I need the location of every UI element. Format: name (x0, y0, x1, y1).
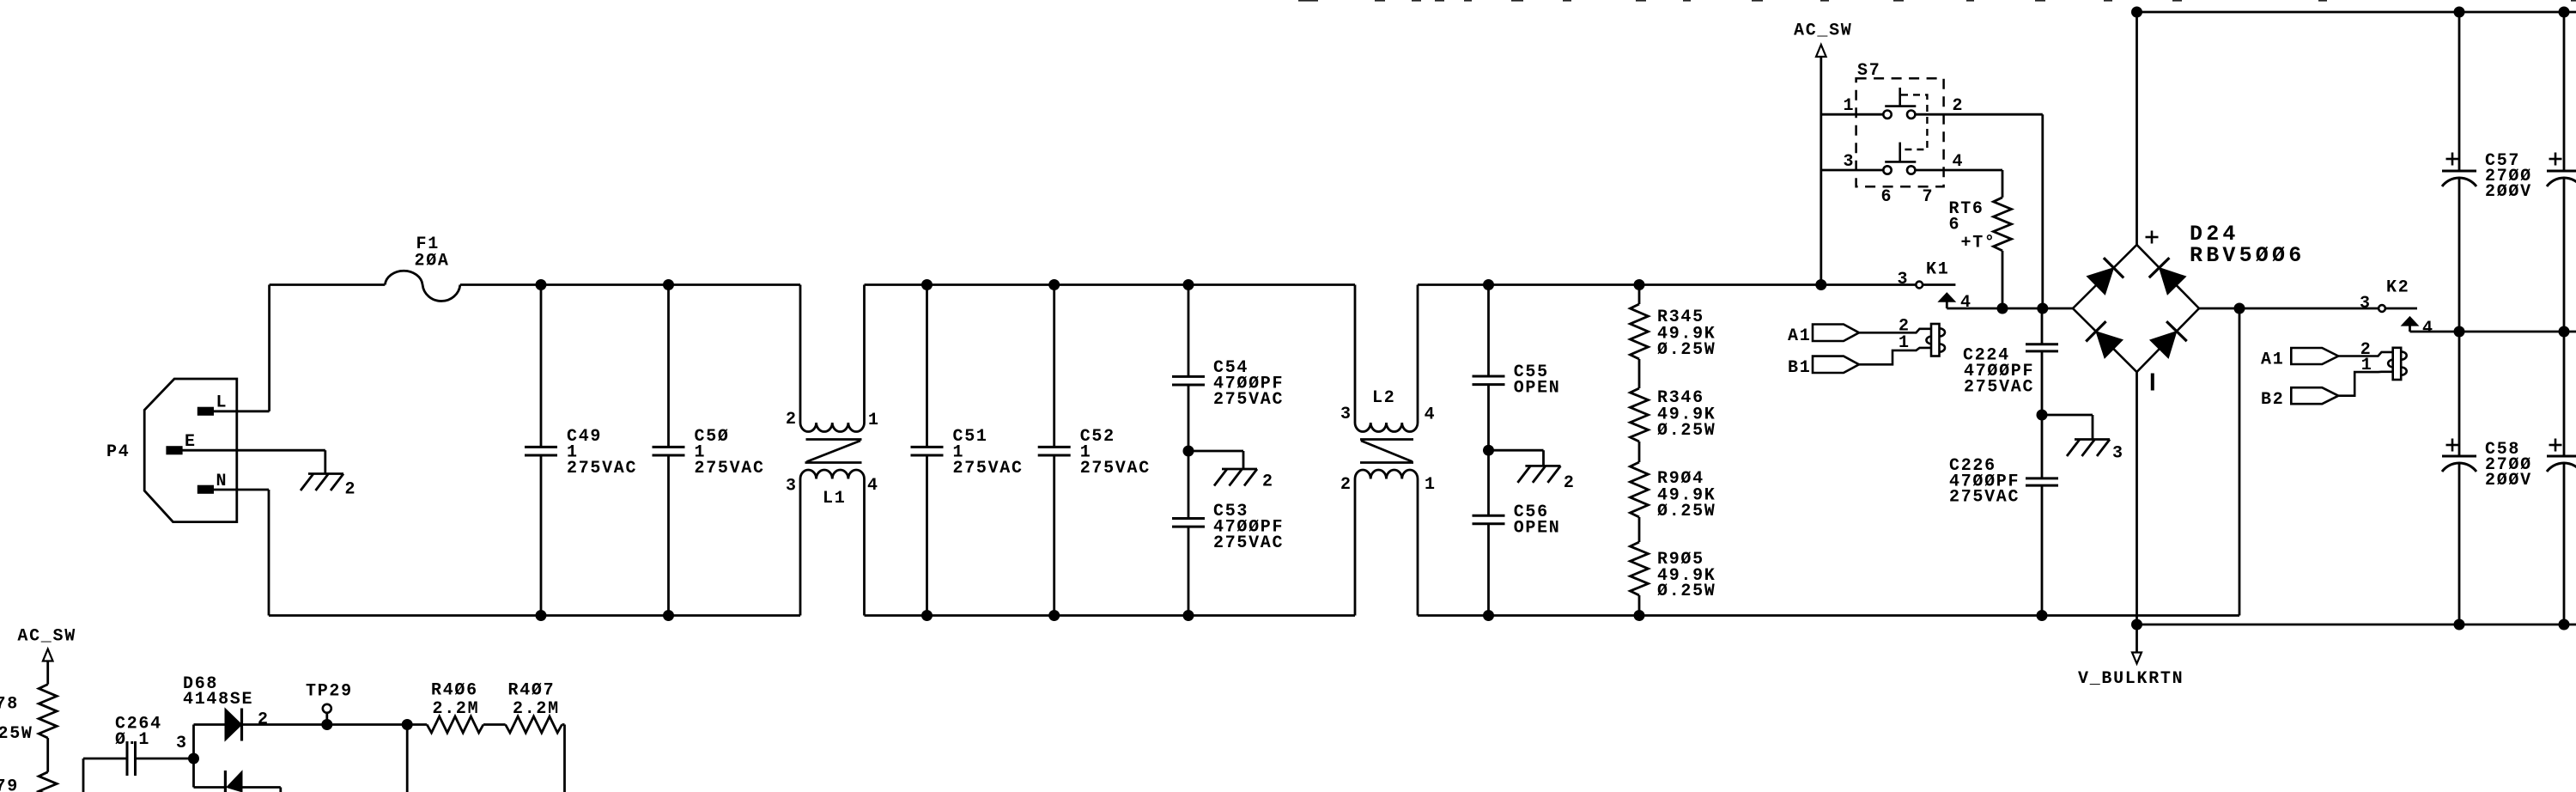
svg-text:2ØØV: 2ØØV (2485, 182, 2532, 202)
svg-text:V_BULKRTN: V_BULKRTN (2078, 669, 2184, 689)
capacitor C224 (2041, 308, 2044, 344)
svg-text:Ø.25W: Ø.25W (1657, 582, 1716, 601)
svg-text:RBV5ØØ6: RBV5ØØ6 (2190, 243, 2305, 268)
svg-text:3: 3 (1898, 270, 1910, 289)
svg-text:K1: K1 (1926, 259, 1949, 279)
svg-text:275VAC: 275VAC (1080, 459, 1151, 478)
svg-text:3: 3 (176, 734, 188, 753)
plug P4 outline (144, 379, 237, 522)
junction C57/C58 mid (2454, 326, 2465, 338)
diode D24 bottom-left (2096, 332, 2123, 358)
svg-text:4: 4 (867, 476, 879, 496)
capacitor column (right edge) (2563, 12, 2566, 171)
junction C52 top (1048, 279, 1060, 290)
wire E pin to ground (182, 449, 325, 452)
capacitor C52 (1053, 285, 1055, 448)
svg-text:1: 1 (868, 411, 880, 430)
svg-text:+T°: +T° (1961, 233, 1996, 253)
wire S7 pin1 (1821, 113, 1884, 116)
svg-text:2: 2 (1262, 472, 1274, 491)
K1 fixed line (1923, 283, 1955, 286)
ground 2 (C55/C56) (1525, 465, 1560, 467)
wire L pin to corner (213, 410, 270, 412)
right cap + mark (top) (2549, 158, 2562, 161)
junction right cap top (2559, 7, 2570, 18)
svg-text:78: 78 (0, 694, 19, 714)
wire N corner down to bottom rail (268, 490, 270, 616)
svg-text:3: 3 (1340, 405, 1352, 424)
svg-text:K2: K2 (2386, 277, 2409, 297)
svg-text:E: E (185, 432, 197, 452)
junction right caps mid (2559, 326, 2570, 338)
svg-text:A1: A1 (1788, 326, 1811, 346)
wire D68 to R406 (242, 723, 428, 726)
svg-text:2.2M: 2.2M (513, 699, 560, 719)
svg-text:3: 3 (2360, 294, 2372, 314)
connector A1 (left) (1813, 325, 1859, 342)
ground 2 (plug earth) (308, 472, 343, 475)
svg-text:Ø.1: Ø.1 (115, 730, 150, 750)
AC_SW up arrow (1816, 45, 1826, 57)
junction C49 top (536, 279, 547, 290)
inductor L2 common-mode choke (1354, 285, 1357, 423)
wire N pin to corner (213, 489, 269, 491)
svg-text:275VAC: 275VAC (695, 459, 765, 478)
svg-text:P4: P4 (106, 442, 130, 462)
wire A1 pin 2 (right) (2338, 352, 2393, 356)
capacitor C58 (2458, 332, 2461, 456)
svg-text:2: 2 (786, 410, 798, 430)
junction C55 top (1483, 279, 1494, 290)
svg-text:25W: 25W (0, 724, 33, 744)
resistor R346 (1638, 359, 1641, 388)
resistor R379 (partial) (39, 772, 57, 792)
wire V_BULKRTN rail (2137, 624, 2576, 626)
svg-text:A1: A1 (2261, 350, 2284, 370)
wire S7 pin4 to RT6 (1915, 169, 2002, 172)
svg-text:3: 3 (2112, 443, 2124, 463)
junction + rail corner (2131, 7, 2142, 18)
fuse F1 (385, 271, 460, 301)
svg-text:2: 2 (1340, 475, 1352, 495)
wire bottom rail riser to bridge AC2 (2239, 308, 2241, 616)
thermistor RT6 (2002, 170, 2004, 198)
wire B1 pin 1 (1859, 348, 1931, 364)
K2 fixed line (2385, 308, 2417, 310)
svg-text:TP29: TP29 (306, 681, 353, 701)
junction C226 bottom (2037, 610, 2048, 621)
svg-text:Ø.25W: Ø.25W (1657, 340, 1716, 360)
wire S7 pin2 down to AC1 node (2041, 114, 2044, 308)
junction AC_SW rail (1815, 279, 1826, 290)
resistor R378 (partial) (39, 685, 57, 739)
top edge crop artifacts (1298, 0, 1318, 2)
junction R905 bottom (1634, 610, 1645, 621)
svg-text:2: 2 (258, 710, 270, 729)
wire bottom rail L2 to riser (1418, 614, 2239, 617)
svg-text:N: N (216, 472, 228, 491)
wire top rail to fuse (270, 283, 386, 286)
junction TP29 (321, 719, 332, 730)
svg-text:OPEN: OPEN (1514, 518, 1561, 538)
svg-text:275VAC: 275VAC (1213, 533, 1284, 553)
ground 3 (2075, 438, 2110, 441)
svg-text:AC_SW: AC_SW (17, 626, 76, 646)
diode D69 (partial) (192, 758, 195, 788)
wire L corner up to top rail (268, 285, 270, 411)
node V_BULKRTN (2136, 624, 2138, 653)
wire to ground 2 (1489, 449, 1544, 452)
junction C49 bottom (536, 610, 547, 621)
K2 arrow (pin 4) (2402, 317, 2419, 326)
svg-text:R4Ø6: R4Ø6 (431, 680, 478, 700)
plug pin L (197, 407, 213, 415)
capacitor C56 (1487, 450, 1490, 515)
wire top rail L2 to K1 (1418, 283, 1916, 286)
wire K2 to capacitor midpoint rail (2410, 331, 2576, 333)
switch S7 dashed box (1856, 78, 1944, 186)
wire bridge AC2 to K2 (2199, 308, 2379, 310)
diode D24 bottom-right (2150, 332, 2177, 358)
svg-text:S7: S7 (1857, 61, 1880, 81)
capacitor C51 (926, 285, 928, 448)
wire + rail (2137, 11, 2576, 14)
svg-text:275VAC: 275VAC (1213, 390, 1284, 410)
junction C56 bottom (1483, 610, 1494, 621)
svg-text:6: 6 (1881, 187, 1893, 207)
svg-text:B1: B1 (1788, 358, 1811, 378)
S7 mechanical link (dashed) (1901, 94, 1927, 149)
resistor R904 (1638, 442, 1641, 462)
connector receptacle (K1 side) (1931, 324, 1940, 356)
capacitor C264 (83, 758, 127, 760)
junction C51 top (921, 279, 933, 290)
svg-text:L2: L2 (1372, 388, 1395, 408)
svg-text:Ø.25W: Ø.25W (1657, 502, 1716, 521)
svg-text:2: 2 (1953, 96, 1965, 116)
L2 core (1360, 438, 1413, 441)
junction C54 top (1183, 279, 1194, 290)
svg-text:79: 79 (0, 777, 19, 792)
junction AC2/bottom rail (2234, 303, 2245, 314)
svg-text:B2: B2 (2261, 390, 2284, 410)
wire bridge - down to V_BULKRTN (2136, 372, 2138, 624)
capacitor C54 (1188, 285, 1190, 377)
junction C53/C54 mid (1183, 446, 1194, 457)
wire bridge + up to top rail (2136, 12, 2138, 245)
junction V_BULKRTN (2131, 619, 2142, 631)
wire A1 pin 2 (1859, 329, 1931, 333)
svg-text:6: 6 (1949, 215, 1961, 235)
wire S7 pin3 (1821, 169, 1884, 172)
svg-text:L1: L1 (823, 489, 846, 509)
capacitor C57 (2458, 12, 2461, 171)
svg-text:OPEN: OPEN (1514, 378, 1561, 398)
L1 core (806, 438, 862, 441)
svg-text:275VAC: 275VAC (1964, 377, 2034, 397)
capacitor C49 (540, 285, 543, 448)
wire top rail fuse to L1 (460, 283, 800, 286)
junction C50 bottom (663, 610, 674, 621)
svg-text:L: L (216, 393, 228, 412)
wire top rail L1 to L2 (865, 283, 1356, 286)
connector receptacle (K2 side) (2393, 348, 2402, 380)
right cap + mark (bottom) (2549, 444, 2562, 447)
C57 + mark (2446, 158, 2459, 161)
wire junction down (clipped) (406, 725, 409, 792)
svg-text:Ø.25W: Ø.25W (1657, 421, 1716, 441)
junction C52 bottom (1048, 610, 1060, 621)
svg-text:4: 4 (1953, 152, 1965, 172)
svg-text:3: 3 (1844, 152, 1856, 172)
svg-text:2: 2 (345, 479, 357, 499)
bridge + mark (2146, 236, 2159, 239)
svg-text:4: 4 (2422, 319, 2434, 338)
junction RT6 bottom (1997, 303, 2008, 314)
wire bottom rail plug to L1 (269, 614, 800, 617)
capacitor C226 (2041, 415, 2044, 478)
svg-text:2.2M: 2.2M (433, 699, 480, 719)
svg-text:AC_SW: AC_SW (1794, 21, 1853, 40)
svg-text:275VAC: 275VAC (567, 459, 637, 478)
junction C224/C226 mid (2037, 410, 2048, 421)
wire E ground drop (324, 450, 326, 473)
svg-text:2ØA: 2ØA (415, 251, 450, 271)
connector B2 (2291, 387, 2338, 404)
junction C55/C56 mid (1483, 445, 1494, 456)
junction C224 top node (2037, 303, 2048, 314)
svg-text:R4Ø7: R4Ø7 (508, 680, 556, 700)
svg-text:4: 4 (1425, 405, 1437, 424)
capacitor C55 (1487, 285, 1490, 377)
capacitor C50 (667, 285, 670, 448)
svg-text:2: 2 (1564, 473, 1576, 493)
inductor L1 common-mode choke (799, 285, 802, 423)
bridge rectifier D24 outline (2073, 245, 2199, 372)
junction right cap bottom (2559, 619, 2570, 631)
svg-text:1: 1 (1425, 475, 1437, 495)
K1 arrow (pin 4) (1939, 293, 1956, 302)
connector B1 (left) (1813, 356, 1859, 373)
junction C58 bottom (2454, 619, 2465, 631)
plug pin E (167, 447, 182, 454)
svg-text:3: 3 (786, 476, 798, 496)
capacitor C53 (1188, 451, 1190, 519)
C58 + mark (2446, 444, 2459, 447)
junction C57 top (2454, 7, 2465, 18)
wire to ground 2 (1188, 450, 1243, 453)
wire K1 to bridge AC1 (1947, 308, 2073, 310)
wire AC_SW to rail (1820, 57, 1822, 285)
junction R406 node (402, 719, 413, 730)
svg-text:1: 1 (1844, 96, 1856, 116)
svg-text:4148SE: 4148SE (183, 690, 253, 710)
svg-text:275VAC: 275VAC (953, 459, 1024, 478)
AC_SW up arrow (bottom) (43, 649, 53, 661)
V_BULKRTN down arrow (2132, 653, 2142, 664)
junction C53 bottom (1183, 610, 1194, 621)
junction C50 top (663, 279, 674, 290)
bridge - mark (2151, 374, 2154, 391)
svg-text:1: 1 (2361, 356, 2373, 375)
svg-text:2ØØV: 2ØØV (2485, 471, 2532, 490)
connector A1 (right) (2291, 348, 2338, 364)
wire bottom rail L1 to L2 (865, 614, 1356, 617)
svg-text:275VAC: 275VAC (1949, 487, 2020, 507)
resistor R905 (1638, 517, 1641, 542)
wire S7 pin2 out (1915, 113, 2042, 116)
wire B2 pin 1 (right) (2338, 372, 2393, 396)
junction R345 top (1634, 279, 1645, 290)
wire to ground 3 (2042, 414, 2093, 417)
resistor R407 (506, 716, 562, 733)
ground 2 (C53/C54) (1222, 468, 1257, 471)
svg-text:1: 1 (1899, 333, 1911, 353)
resistor R406 (427, 716, 483, 733)
diode D24 top-left (2087, 268, 2113, 295)
diode D68 (192, 725, 195, 759)
wire R407 down (clipped) (563, 725, 566, 792)
junction C51 bottom (921, 610, 933, 621)
plug pin N (197, 485, 213, 493)
junction node 3 (188, 753, 199, 765)
diode D24 top-right (2160, 268, 2186, 295)
svg-text:7: 7 (1923, 187, 1935, 207)
